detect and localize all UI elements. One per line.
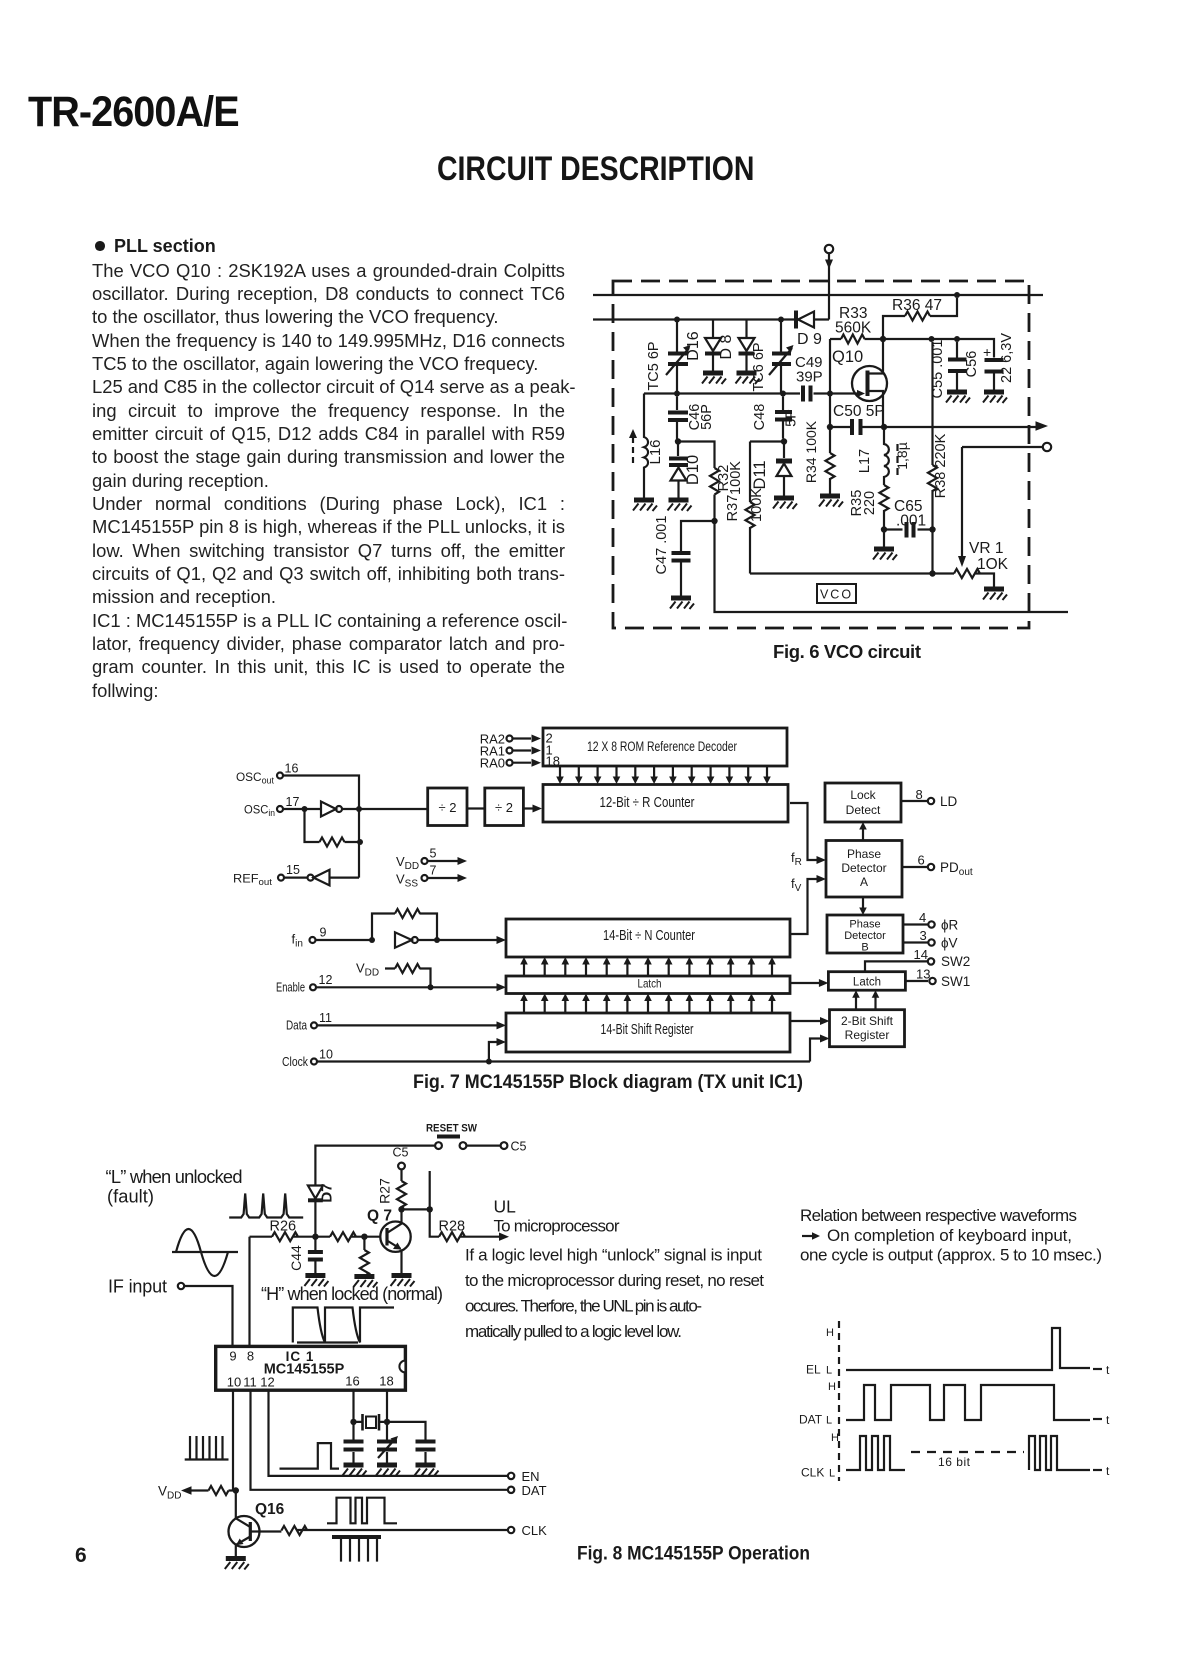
svg-text:ϕR: ϕR	[941, 918, 959, 933]
svg-text:“H” when locked (normal): “H” when locked (normal)	[261, 1284, 443, 1304]
svg-text:D 9: D 9	[797, 331, 822, 348]
svg-text:C44: C44	[288, 1245, 304, 1271]
svg-text:.001: .001	[896, 513, 926, 530]
svg-text:TC5 6P: TC5 6P	[646, 341, 662, 390]
svg-text:CLK: CLK	[801, 1466, 824, 1480]
svg-text:13: 13	[916, 967, 930, 982]
svg-text:D11: D11	[751, 460, 769, 489]
svg-text:L: L	[826, 1365, 832, 1377]
svg-text:14-Bit Shift Register: 14-Bit Shift Register	[601, 1022, 694, 1038]
svg-text:R37: R37	[725, 495, 741, 522]
svg-text:fV: fV	[791, 876, 802, 894]
svg-text:÷ 2: ÷ 2	[439, 800, 457, 815]
svg-text:RESET SW: RESET SW	[426, 1123, 478, 1135]
svg-text:17: 17	[286, 795, 300, 809]
svg-text:11: 11	[243, 1375, 257, 1390]
svg-text:If a logic level high “unlock”: If a logic level high “unlock” signal is…	[465, 1246, 762, 1265]
svg-text:Lock: Lock	[850, 788, 876, 802]
svg-text:C47 .001: C47 .001	[654, 516, 670, 575]
svg-text:RA0: RA0	[480, 756, 505, 771]
svg-text:220: 220	[862, 491, 878, 515]
svg-text:Register: Register	[845, 1028, 890, 1042]
svg-text:Latch: Latch	[853, 977, 881, 989]
svg-text:Clock: Clock	[282, 1054, 308, 1069]
svg-text:Detector: Detector	[844, 930, 886, 942]
svg-text:TC6 6P: TC6 6P	[751, 342, 767, 391]
svg-text:Fig. 8 MC145155P Operation: Fig. 8 MC145155P Operation	[577, 1543, 810, 1565]
svg-text:16 bit: 16 bit	[938, 1455, 971, 1469]
svg-text:fin: fin	[292, 932, 303, 950]
svg-text:C5: C5	[393, 1146, 409, 1160]
svg-text:H: H	[831, 1432, 839, 1444]
svg-text:18: 18	[546, 754, 560, 769]
svg-text:VCO: VCO	[820, 588, 853, 602]
svg-text:3: 3	[920, 928, 927, 943]
svg-text:Detector: Detector	[841, 861, 886, 875]
svg-text:Q16: Q16	[255, 1501, 285, 1518]
svg-text:÷ 2: ÷ 2	[495, 800, 513, 815]
svg-text:4: 4	[919, 910, 926, 925]
svg-text:10: 10	[319, 1048, 333, 1062]
svg-text:14: 14	[914, 947, 928, 962]
svg-text:Detect: Detect	[846, 803, 881, 817]
svg-text:12: 12	[260, 1375, 274, 1390]
svg-text:H: H	[826, 1327, 834, 1339]
svg-text:R28: R28	[439, 1219, 466, 1235]
svg-text:12 X 8 ROM Reference Decoder: 12 X 8 ROM Reference Decoder	[587, 739, 737, 754]
svg-text:Q10: Q10	[832, 348, 863, 366]
svg-text:39P: 39P	[796, 369, 823, 386]
svg-text:EN: EN	[522, 1469, 540, 1484]
svg-text:B: B	[861, 942, 868, 954]
svg-text:fR: fR	[791, 850, 802, 868]
svg-text:Phase: Phase	[847, 847, 881, 861]
svg-text:15: 15	[286, 863, 300, 877]
svg-text:VSS: VSS	[396, 872, 418, 890]
svg-text:IF input: IF input	[108, 1277, 167, 1297]
svg-text:UL: UL	[494, 1197, 517, 1217]
svg-text:VDD: VDD	[356, 961, 379, 979]
svg-text:L16: L16	[647, 439, 664, 464]
svg-text:5: 5	[430, 847, 437, 861]
svg-text:9: 9	[229, 1349, 236, 1364]
svg-text:L17: L17	[857, 449, 873, 473]
svg-text:2-Bit Shift: 2-Bit Shift	[841, 1014, 894, 1028]
svg-text:100K: 100K	[728, 461, 744, 495]
svg-text:H: H	[828, 1381, 836, 1393]
svg-text:R27: R27	[377, 1178, 393, 1204]
svg-text:“L” when unlocked: “L” when unlocked	[106, 1166, 243, 1187]
svg-text:CLK: CLK	[522, 1523, 548, 1538]
svg-text:OSCin: OSCin	[244, 803, 275, 819]
svg-text:DAT: DAT	[522, 1483, 547, 1498]
svg-text:5P: 5P	[784, 409, 800, 427]
svg-text:C5: C5	[511, 1140, 527, 1154]
svg-text:14-Bit ÷ N Counter: 14-Bit ÷ N Counter	[603, 928, 695, 944]
svg-text:+: +	[983, 344, 991, 360]
svg-text:D 8: D 8	[718, 334, 735, 359]
svg-text:7: 7	[430, 864, 437, 878]
svg-text:16: 16	[345, 1374, 359, 1389]
svg-text:L: L	[829, 1468, 835, 1480]
svg-text:C48: C48	[752, 404, 768, 431]
svg-text:Fig. 7 MC145155P Block diagra: Fig. 7 MC145155P Block diagram (TX unit …	[413, 1071, 803, 1093]
svg-text:t: t	[1106, 1363, 1110, 1377]
svg-text:t: t	[1106, 1413, 1110, 1427]
svg-text:to the microprocessor during r: to the microprocessor during reset, no r…	[465, 1271, 764, 1290]
svg-text:Latch: Latch	[638, 977, 662, 991]
svg-text:18: 18	[379, 1374, 393, 1389]
svg-text:L: L	[826, 1415, 832, 1427]
svg-text:matically pulled to a logic le: matically pulled to a logic level low.	[465, 1322, 682, 1341]
svg-text:Enable: Enable	[276, 980, 305, 995]
svg-text:(fault): (fault)	[107, 1186, 154, 1207]
svg-text:Q 7: Q 7	[367, 1208, 392, 1225]
svg-text:PDout: PDout	[940, 860, 973, 878]
svg-text:C50 5P: C50 5P	[833, 403, 885, 420]
svg-text:C56: C56	[964, 351, 980, 378]
svg-text:16: 16	[285, 762, 299, 776]
svg-text:OSCout: OSCout	[236, 770, 274, 786]
svg-text:11: 11	[319, 1011, 332, 1025]
svg-text:VR 1: VR 1	[969, 540, 1003, 557]
svg-text:6: 6	[918, 853, 925, 868]
svg-text:t: t	[1106, 1464, 1110, 1478]
svg-text:EL: EL	[806, 1363, 821, 1377]
svg-text:R38 220K: R38 220K	[933, 433, 949, 498]
svg-text:8: 8	[247, 1349, 254, 1364]
svg-text:MC145155P: MC145155P	[264, 1362, 345, 1378]
svg-text:LD: LD	[940, 794, 958, 809]
svg-text:VDD: VDD	[158, 1484, 181, 1502]
svg-text:A: A	[860, 875, 868, 889]
svg-text:R34 100K: R34 100K	[803, 420, 819, 483]
svg-text:SW1: SW1	[941, 974, 970, 989]
svg-text:D7: D7	[319, 1183, 336, 1202]
svg-text:VDD: VDD	[396, 854, 419, 872]
svg-text:On completion of keyboard inpu: On completion of keyboard input,	[827, 1226, 1072, 1245]
svg-text:REFout: REFout	[233, 872, 272, 888]
svg-text:D16: D16	[685, 331, 702, 360]
svg-text:22 6,3V: 22 6,3V	[999, 333, 1015, 383]
svg-text:12: 12	[319, 973, 333, 987]
svg-text:Relation between respective wa: Relation between respective waveforms	[800, 1206, 1077, 1225]
svg-text:one cycle is output (approx. 5: one cycle is output (approx. 5 to 10 mse…	[800, 1246, 1102, 1265]
svg-text:Fig. 6 VCO circuit: Fig. 6 VCO circuit	[773, 641, 921, 662]
svg-text:1,8µ: 1,8µ	[894, 442, 910, 470]
svg-text:100K: 100K	[749, 488, 765, 522]
svg-text:Data: Data	[286, 1018, 308, 1033]
svg-text:SW2: SW2	[941, 954, 970, 969]
svg-text:9: 9	[320, 926, 327, 940]
svg-text:1OK: 1OK	[977, 556, 1009, 573]
svg-text:10: 10	[227, 1375, 241, 1390]
svg-text:56P: 56P	[699, 404, 715, 430]
svg-text:To microprocessor: To microprocessor	[494, 1217, 620, 1236]
svg-text:12-Bit ÷ R Counter: 12-Bit ÷ R Counter	[600, 795, 695, 811]
svg-text:occures. Therfore, the UNL pin: occures. Therfore, the UNL pin is auto-	[465, 1297, 702, 1316]
svg-text:D10: D10	[684, 455, 702, 485]
svg-text:8: 8	[916, 787, 923, 802]
svg-text:DAT: DAT	[799, 1413, 823, 1427]
svg-text:ϕV: ϕV	[941, 936, 958, 951]
svg-text:Phase: Phase	[849, 919, 880, 931]
